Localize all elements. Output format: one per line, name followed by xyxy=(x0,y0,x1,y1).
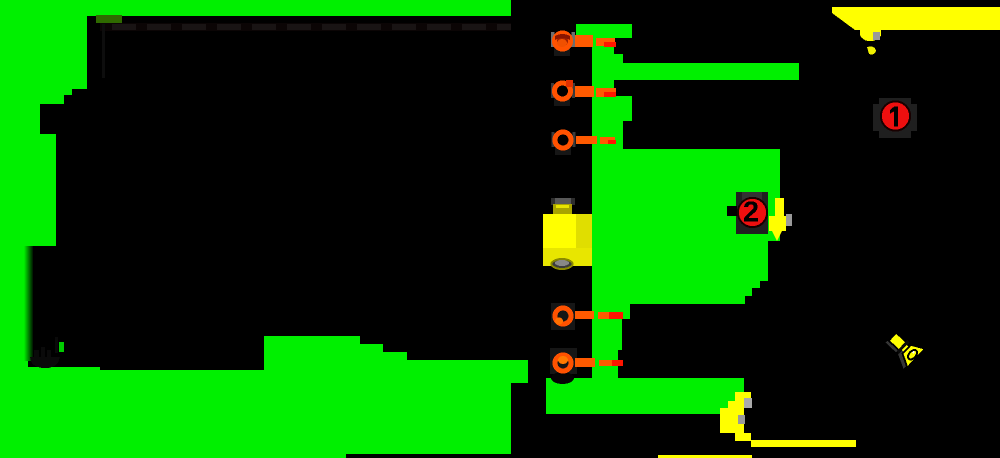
wall texture dashes xyxy=(100,23,511,31)
column stub xyxy=(614,54,623,63)
orange ring 3 xyxy=(552,132,555,147)
green top strip xyxy=(0,0,511,16)
column segment below xyxy=(592,121,623,150)
column wide segment xyxy=(592,96,632,121)
orange ring 1 (filled) xyxy=(551,32,575,49)
big central room xyxy=(592,149,780,378)
orange ring 2 xyxy=(551,80,575,99)
dark vertical line xyxy=(102,24,105,78)
bottom room xyxy=(546,378,744,414)
flashlight icon xyxy=(881,327,925,369)
green top-left room xyxy=(0,13,87,368)
left column gradient edge xyxy=(24,246,33,361)
orange ring 4 xyxy=(555,308,571,325)
green bottom-left room xyxy=(0,336,528,458)
ring 5 shadow on green xyxy=(551,372,574,384)
yellow curve path bottom right xyxy=(658,392,856,458)
marker 1 xyxy=(873,98,917,138)
middle column upper xyxy=(592,24,614,150)
ring shadows xyxy=(550,48,577,374)
corridor A xyxy=(614,63,799,80)
yellow top bar xyxy=(832,7,1000,30)
yellow arrow down xyxy=(769,198,792,241)
marker 2 xyxy=(727,192,768,234)
canister icon xyxy=(543,198,592,269)
orange dashes xyxy=(575,35,616,367)
small dark icon bottom-left xyxy=(30,337,60,368)
olive patch under strip xyxy=(96,15,122,23)
green specks xyxy=(59,342,64,352)
orange ring 5 xyxy=(555,355,571,371)
middle column top block xyxy=(576,24,632,38)
